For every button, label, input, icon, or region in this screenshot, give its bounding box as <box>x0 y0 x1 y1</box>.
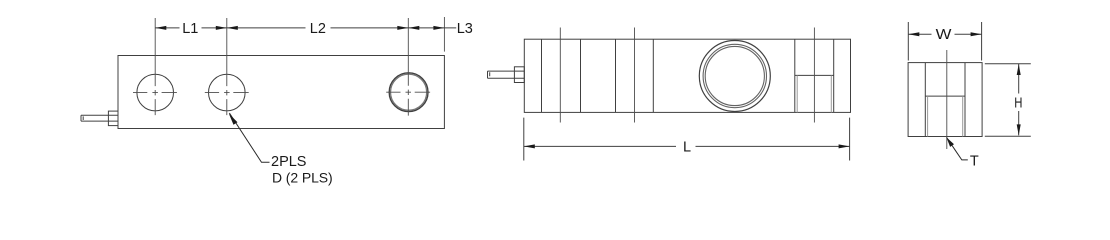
svg-text:T: T <box>970 154 979 170</box>
svg-text:W: W <box>936 27 952 43</box>
svg-text:L2: L2 <box>310 21 326 37</box>
svg-text:L: L <box>683 140 691 156</box>
svg-text:L3: L3 <box>457 21 473 37</box>
svg-text:H: H <box>1014 95 1022 111</box>
svg-text:L1: L1 <box>182 21 198 37</box>
svg-text:2PLS: 2PLS <box>271 154 306 170</box>
svg-text:D (2 PLS): D (2 PLS) <box>272 169 333 185</box>
